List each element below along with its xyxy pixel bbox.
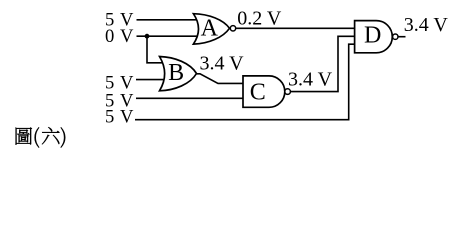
svg-text:3.4 V: 3.4 V [200, 52, 245, 74]
wire: 5V to gate C bottom input [136, 97, 246, 99]
svg-text:3.4 V: 3.4 V [404, 14, 449, 36]
wire: gate C output up to gate D middle input [290, 36, 355, 91]
svg-text:3.4 V: 3.4 V [288, 69, 333, 91]
caption: figure label 圖(六) [16, 127, 66, 147]
node: junction dot on 0V line [145, 34, 150, 39]
gate D (NAND) body [355, 21, 393, 53]
svg-text:B: B [168, 60, 184, 86]
svg-text:C: C [250, 79, 266, 105]
wire: gate B output to gate C top input [197, 74, 247, 84]
wire: branch from 0V node down and right to gate B top input [147, 36, 170, 63]
gate C (NAND) body [243, 76, 285, 107]
gate C output bubble [285, 89, 291, 95]
svg-text:A: A [201, 16, 219, 42]
wire: 5V to gate A top input [137, 19, 206, 21]
wire: 5V to gate B bottom input [136, 79, 170, 81]
gate D output bubble [393, 34, 398, 39]
gate A (NOR) body [193, 14, 229, 44]
wire: bottom 5V across and up to gate D bottom input [135, 44, 356, 120]
wire: gate D output [398, 36, 406, 38]
gate B (OR) body [160, 57, 197, 91]
wire: gate A output to gate D top input [236, 27, 356, 29]
wire: 0V to gate A bottom input [137, 35, 206, 37]
svg-text:0.2 V: 0.2 V [237, 7, 282, 29]
gate A output bubble [230, 26, 235, 31]
svg-text:0 V: 0 V [105, 26, 134, 47]
svg-text:5 V: 5 V [105, 107, 134, 128]
svg-text:D: D [364, 22, 381, 48]
